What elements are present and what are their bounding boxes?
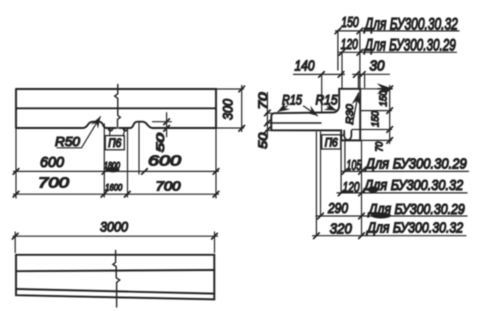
П6 label (section) — [322, 135, 341, 149]
svg-text:70: 70 — [256, 92, 270, 109]
svg-text:105: 105 — [346, 158, 362, 174]
dim row 1: 600 / 1800 / 600 — [14, 170, 219, 172]
row D: 320 — [313, 235, 467, 237]
svg-text:Для БУ300.30.32: Для БУ300.30.32 — [363, 15, 458, 34]
svg-text:150: 150 — [370, 111, 382, 127]
svg-text:120: 120 — [343, 180, 360, 196]
dim row 2: 700 / 1600 / 700 — [14, 193, 219, 195]
svg-text:70: 70 — [374, 142, 386, 152]
svg-text:П6: П6 — [108, 138, 122, 150]
ink smudge under 1800 — [107, 167, 120, 172]
svg-text:120: 120 — [341, 37, 358, 53]
300 dim (right of side view) — [217, 89, 244, 128]
row A: 105 — [341, 170, 469, 172]
lifting loop bumps at bottom — [108, 128, 112, 131]
svg-text:50: 50 — [256, 132, 270, 148]
svg-text:140: 140 — [295, 59, 315, 75]
block outline with bottom recesses — [16, 89, 216, 131]
lifting loop in section — [344, 131, 351, 140]
svg-text:700: 700 — [156, 180, 181, 194]
extension lines below side view — [16, 122, 216, 198]
extension lines for bottom dims — [316, 132, 361, 236]
svg-text:3000: 3000 — [100, 219, 128, 235]
П6 label (side view) — [105, 136, 124, 150]
svg-text:150: 150 — [378, 90, 390, 106]
svg-text:Для БУ300.30.29: Для БУ300.30.29 — [364, 155, 467, 172]
50 depth dim (right recess) — [153, 121, 172, 123]
row B: 120 — [337, 192, 467, 194]
svg-text:Для БУ300.30.32: Для БУ300.30.32 — [366, 220, 464, 237]
svg-text:700: 700 — [38, 176, 69, 192]
svg-text:Для БУ300.30.32: Для БУ300.30.32 — [362, 177, 463, 194]
break line (side view) — [115, 85, 121, 129]
inner horizontal line — [16, 107, 216, 109]
svg-text:320: 320 — [330, 222, 352, 238]
svg-text:30: 30 — [370, 58, 385, 74]
3000 dim — [15, 232, 214, 253]
svg-text:R15: R15 — [316, 92, 338, 108]
svg-text:600: 600 — [40, 155, 64, 171]
svg-text:600: 600 — [148, 153, 182, 170]
svg-text:R50: R50 — [55, 134, 81, 149]
right vertical dims 150/150/70 — [352, 89, 392, 141]
svg-text:1600: 1600 — [105, 183, 123, 194]
left vertical dims 70/50 — [266, 113, 271, 130]
svg-text:290: 290 — [327, 201, 348, 217]
svg-text:П6: П6 — [325, 137, 339, 149]
svg-text:300: 300 — [221, 99, 236, 120]
profile outline — [271, 89, 360, 141]
svg-text:150: 150 — [341, 15, 359, 31]
140 dim — [294, 73, 345, 75]
break line (plan) — [113, 251, 120, 308]
recess hidden edge — [271, 122, 321, 124]
svg-text:R15: R15 — [282, 92, 302, 108]
30 dim — [353, 73, 390, 75]
top dims: 150 (row1), 120 (row2) — [336, 30, 460, 32]
svg-text:Для БУ300.30.29: Для БУ300.30.29 — [363, 36, 456, 55]
svg-text:50: 50 — [155, 132, 167, 152]
R50 label + leader — [57, 117, 100, 148]
row C: 290 — [316, 215, 467, 217]
